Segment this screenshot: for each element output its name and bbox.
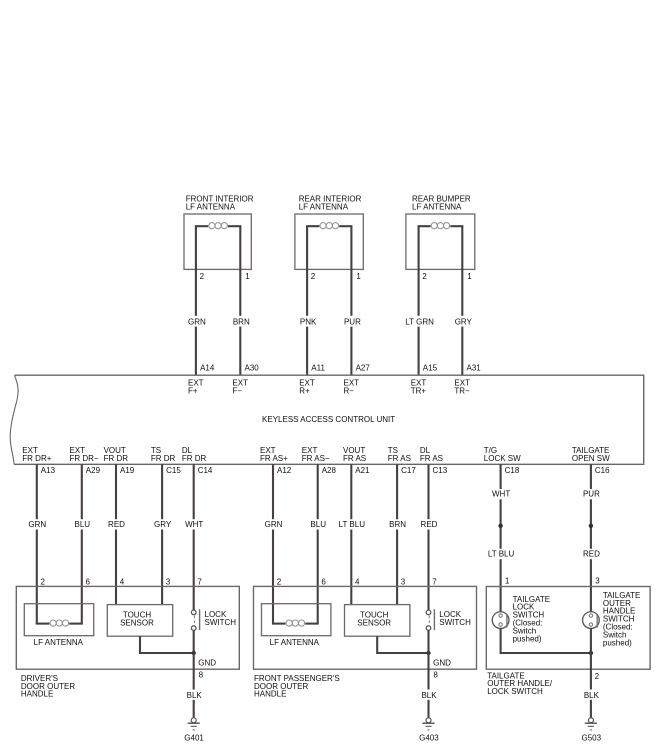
net label DL FR AS on control unit (420, 446, 443, 463)
net label VOUT FR DR on control unit (104, 446, 129, 463)
svg-text:RED: RED (421, 520, 438, 529)
keyless access control unit (torn-edge outline) (10, 375, 644, 464)
pin 2 of unit U3 (422, 272, 427, 281)
svg-text:LT BLU: LT BLU (488, 550, 515, 559)
wire BLU from pin A29 (71, 464, 93, 623)
splice joint on C16 wire (589, 524, 593, 528)
tailgate lock switch (closed: switch pushed) (492, 595, 550, 644)
pin A21 label (355, 466, 370, 475)
pin 2 of tailgate assembly (595, 672, 600, 681)
LF antenna coil (272, 620, 319, 626)
pin A13 label (41, 466, 56, 475)
net label EXT R− (344, 379, 360, 396)
svg-text:A19: A19 (120, 466, 135, 475)
svg-text:4: 4 (355, 577, 360, 586)
svg-text:F+: F+ (188, 387, 198, 396)
wire PUR from unit U2 pin 1 to control unit pin A27 (340, 226, 362, 375)
svg-text:BLK: BLK (584, 691, 600, 700)
wire RED from pin C13 (418, 464, 440, 610)
svg-text:3: 3 (401, 577, 406, 586)
svg-text:4: 4 (120, 577, 125, 586)
touch sensor in FRONT PASSENGER'S handle (345, 605, 410, 637)
svg-text:FR DR: FR DR (182, 454, 207, 463)
svg-text:BLU: BLU (75, 520, 91, 529)
svg-text:1: 1 (467, 272, 472, 281)
svg-text:HANDLE: HANDLE (21, 689, 53, 698)
pin 1 of unit U2 (356, 272, 361, 281)
inductor coil L3 inside unit U3 (418, 223, 464, 229)
touch sensor in DRIVER'S handle (107, 605, 172, 637)
svg-text:LOCK SWITCH: LOCK SWITCH (487, 687, 543, 696)
wire LT BLU from pin A21 (336, 464, 366, 604)
svg-text:A14: A14 (200, 363, 215, 372)
svg-text:BLK: BLK (187, 691, 203, 700)
svg-text:FR AS+: FR AS+ (260, 454, 288, 463)
wire GRN from unit U1 pin 2 to control unit pin A14 (185, 226, 207, 375)
pin 1 of unit U1 (245, 272, 250, 281)
pin A19 label (120, 466, 135, 475)
svg-text:C14: C14 (198, 466, 213, 475)
pin A30 label (245, 363, 260, 372)
svg-text:GRN: GRN (28, 520, 46, 529)
LF antenna coil (36, 620, 83, 626)
svg-text:3: 3 (595, 576, 600, 585)
LF antenna unit U2: REAR INTERIOR LF ANTENNA (295, 195, 363, 270)
net label EXT TR− (454, 379, 470, 396)
svg-text:TR−: TR− (454, 387, 470, 396)
svg-text:C15: C15 (166, 466, 181, 475)
svg-text:8: 8 (199, 671, 204, 680)
svg-text:A27: A27 (356, 363, 371, 372)
net label EXT FR AS− on control unit (302, 446, 330, 463)
pin 7 of DRIVER'S handle (197, 577, 202, 586)
svg-text:2: 2 (311, 272, 316, 281)
svg-text:A13: A13 (41, 466, 56, 475)
wire GRY from unit U3 pin 1 to control unit pin A31 (451, 226, 473, 375)
svg-text:FR DR−: FR DR− (70, 454, 99, 463)
svg-text:FR AS−: FR AS− (302, 454, 330, 463)
net label EXT F+ (188, 379, 204, 396)
svg-text:1: 1 (245, 272, 250, 281)
wire BLU from pin A28 (307, 464, 329, 623)
svg-text:SWITCH: SWITCH (205, 618, 237, 627)
net label TAILGATE OPEN SW on control unit (572, 446, 610, 463)
svg-text:SENSOR: SENSOR (357, 619, 391, 628)
pin 2 of DRIVER'S handle (41, 577, 46, 586)
wire BLK to ground (421, 630, 438, 717)
wire BRN from pin C17 (386, 464, 408, 604)
svg-text:TR+: TR+ (411, 387, 427, 396)
svg-text:1: 1 (356, 272, 361, 281)
pin 8 of handle (199, 671, 204, 680)
wire BLK from tailgate to ground (583, 628, 600, 717)
net label EXT R+ (299, 379, 315, 396)
svg-text:LOCK SW: LOCK SW (484, 454, 521, 463)
GND label (433, 659, 451, 668)
svg-text:6: 6 (321, 577, 326, 586)
svg-text:FR AS: FR AS (388, 454, 411, 463)
svg-text:BLU: BLU (310, 520, 326, 529)
svg-text:2: 2 (422, 272, 427, 281)
svg-text:WHT: WHT (185, 520, 203, 529)
tailgate outer handle / lock switch assembly box (486, 587, 650, 696)
outer-handle assembly box: DRIVER'S DOOR OUTER HANDLE (16, 586, 239, 698)
svg-text:pushed): pushed) (603, 638, 632, 647)
svg-text:R+: R+ (299, 387, 310, 396)
pin 4 of FRONT PASSENGER'S handle (355, 577, 360, 586)
ground symbol G403 (419, 718, 439, 743)
pin A29 label (86, 466, 101, 475)
wire from touch sensor to ground node (377, 636, 428, 653)
svg-text:8: 8 (433, 671, 438, 680)
pin 2 of unit U2 (311, 272, 316, 281)
pin A28 label (322, 466, 337, 475)
svg-text:F−: F− (232, 387, 242, 396)
inductor coil L1 inside unit U1 (195, 223, 242, 229)
svg-text:G401: G401 (184, 733, 204, 742)
pin C17 label (401, 466, 416, 475)
GND label (198, 659, 216, 668)
pin 2 of unit U1 (200, 272, 205, 281)
svg-text:6: 6 (86, 577, 91, 586)
LF antenna unit U3: REAR BUMPER LF ANTENNA (406, 195, 475, 270)
svg-text:C18: C18 (505, 466, 520, 475)
pin C18 label (505, 466, 520, 475)
svg-text:SENSOR: SENSOR (120, 619, 154, 628)
net label EXT FR DR+ on control unit (22, 446, 51, 463)
svg-text:A28: A28 (322, 466, 337, 475)
svg-text:1: 1 (505, 576, 510, 585)
net label T/G LOCK SW on control unit (484, 446, 521, 463)
svg-text:C16: C16 (595, 466, 610, 475)
pin A11 label (311, 363, 325, 372)
pin C15 label (166, 466, 181, 475)
svg-text:pushed): pushed) (513, 634, 542, 643)
svg-text:G403: G403 (419, 733, 439, 742)
svg-text:LT GRN: LT GRN (405, 318, 434, 327)
pin A12 label (277, 466, 292, 475)
svg-text:GRY: GRY (154, 520, 172, 529)
svg-text:R−: R− (344, 387, 355, 396)
pin 1 of tailgate assembly (505, 576, 510, 585)
svg-text:BRN: BRN (233, 318, 250, 327)
svg-text:RED: RED (583, 550, 600, 559)
inductor coil L2 inside unit U2 (306, 223, 352, 229)
svg-text:2: 2 (277, 577, 282, 586)
wire WHT from pin C14 (183, 464, 205, 610)
svg-text:2: 2 (200, 272, 205, 281)
lock switch in FRONT PASSENGER'S handle (426, 609, 471, 630)
pin A31 label (467, 363, 482, 372)
wire GRY from pin C15 (151, 464, 173, 604)
net label EXT TR+ (411, 379, 427, 396)
pin 7 of FRONT PASSENGER'S handle (432, 577, 437, 586)
svg-text:2: 2 (41, 577, 46, 586)
svg-text:FR AS: FR AS (420, 454, 443, 463)
svg-text:GND: GND (198, 659, 216, 668)
pin 6 of FRONT PASSENGER'S handle (321, 577, 326, 586)
svg-text:FR DR+: FR DR+ (22, 454, 51, 463)
wire GRN from pin A13 (26, 464, 48, 623)
svg-text:FR AS: FR AS (343, 454, 366, 463)
svg-text:LF ANTENNA: LF ANTENNA (412, 203, 462, 212)
svg-text:WHT: WHT (492, 490, 510, 499)
svg-text:3: 3 (166, 577, 171, 586)
svg-text:A31: A31 (467, 363, 482, 372)
outer-handle assembly box: FRONT PASSENGER'S DOOR OUTER HANDLE (254, 586, 477, 698)
svg-text:BRN: BRN (389, 520, 406, 529)
pin 4 of DRIVER'S handle (120, 577, 125, 586)
svg-text:LT BLU: LT BLU (339, 520, 366, 529)
ground symbol G401 (184, 718, 204, 743)
svg-text:LF ANTENNA: LF ANTENNA (186, 203, 236, 212)
wire WHT / LT BLU from pin C18 to tailgate switch (486, 464, 516, 611)
svg-text:LF ANTENNA: LF ANTENNA (270, 638, 320, 647)
svg-text:LF ANTENNA: LF ANTENNA (299, 203, 349, 212)
pin C14 label (198, 466, 213, 475)
splice joint on C18 wire (498, 524, 502, 528)
pin 3 of tailgate assembly (595, 576, 600, 585)
svg-text:C13: C13 (433, 466, 448, 475)
pin 2 of FRONT PASSENGER'S handle (277, 577, 282, 586)
svg-text:C17: C17 (401, 466, 416, 475)
wire GRN from pin A12 (262, 464, 284, 623)
pin 6 of DRIVER'S handle (86, 577, 91, 586)
LF antenna unit U1: FRONT INTERIOR LF ANTENNA (184, 195, 254, 270)
ground symbol G503 (582, 718, 602, 743)
pin C16 label (595, 466, 610, 475)
wire PNK from unit U2 pin 2 to control unit pin A11 (296, 226, 318, 375)
svg-text:7: 7 (432, 577, 437, 586)
svg-text:RED: RED (108, 520, 125, 529)
svg-text:KEYLESS ACCESS CONTROL UNIT: KEYLESS ACCESS CONTROL UNIT (262, 415, 395, 424)
svg-text:7: 7 (197, 577, 202, 586)
wire from touch sensor to ground node (140, 636, 194, 653)
svg-text:A12: A12 (277, 466, 292, 475)
svg-text:GRY: GRY (455, 318, 473, 327)
LF antenna box in DRIVER'S handle (24, 604, 93, 648)
svg-text:A11: A11 (311, 363, 325, 372)
net label VOUT FR AS on control unit (343, 446, 366, 463)
svg-text:PUR: PUR (344, 318, 361, 327)
svg-text:SWITCH: SWITCH (439, 618, 471, 627)
svg-text:OPEN SW: OPEN SW (572, 454, 610, 463)
pin 3 of DRIVER'S handle (166, 577, 171, 586)
wire PUR / RED from pin C16 to tailgate switch (580, 464, 602, 611)
svg-text:G503: G503 (582, 733, 602, 742)
svg-text:A21: A21 (355, 466, 370, 475)
svg-text:GRN: GRN (265, 520, 283, 529)
LF antenna box in FRONT PASSENGER'S handle (262, 604, 331, 648)
svg-text:A29: A29 (86, 466, 101, 475)
net label EXT FR DR− on control unit (70, 446, 99, 463)
junction dot at ground node (192, 651, 196, 655)
svg-text:LF ANTENNA: LF ANTENNA (34, 638, 84, 647)
svg-text:GRN: GRN (188, 318, 206, 327)
net label TS FR AS on control unit (388, 446, 411, 463)
wire RED from pin A19 (105, 464, 127, 604)
svg-text:A30: A30 (245, 363, 260, 372)
svg-text:PNK: PNK (300, 318, 317, 327)
junction dot at tailgate ground node (589, 651, 593, 655)
net label DL FR DR on control unit (182, 446, 207, 463)
junction dot at ground node (426, 651, 430, 655)
svg-text:FR DR: FR DR (151, 454, 176, 463)
svg-text:A15: A15 (423, 363, 438, 372)
tailgate outer handle switch (closed: switch pushed) (583, 591, 641, 647)
wire LT GRN from unit U3 pin 2 to control unit pin A15 (405, 226, 434, 375)
svg-text:FR DR: FR DR (104, 454, 129, 463)
lock switch in DRIVER'S handle (191, 609, 236, 630)
pin A14 label (200, 363, 215, 372)
pin 3 of FRONT PASSENGER'S handle (401, 577, 406, 586)
pin A27 label (356, 363, 371, 372)
svg-text:HANDLE: HANDLE (254, 689, 286, 698)
svg-text:GND: GND (433, 659, 451, 668)
net label EXT F− (232, 379, 248, 396)
pin 8 of handle (433, 671, 438, 680)
svg-text:BLK: BLK (421, 691, 437, 700)
net label EXT FR AS+ on control unit (260, 446, 288, 463)
pin C13 label (433, 466, 448, 475)
pin A15 label (423, 363, 438, 372)
net label TS FR DR on control unit (151, 446, 176, 463)
wire from tailgate lock switch to ground node (501, 628, 591, 653)
pin 1 of unit U3 (467, 272, 472, 281)
svg-text:2: 2 (595, 672, 600, 681)
wire BLK to ground (186, 630, 203, 717)
wire BRN from unit U1 pin 1 to control unit pin A30 (229, 226, 251, 375)
svg-text:PUR: PUR (583, 490, 600, 499)
